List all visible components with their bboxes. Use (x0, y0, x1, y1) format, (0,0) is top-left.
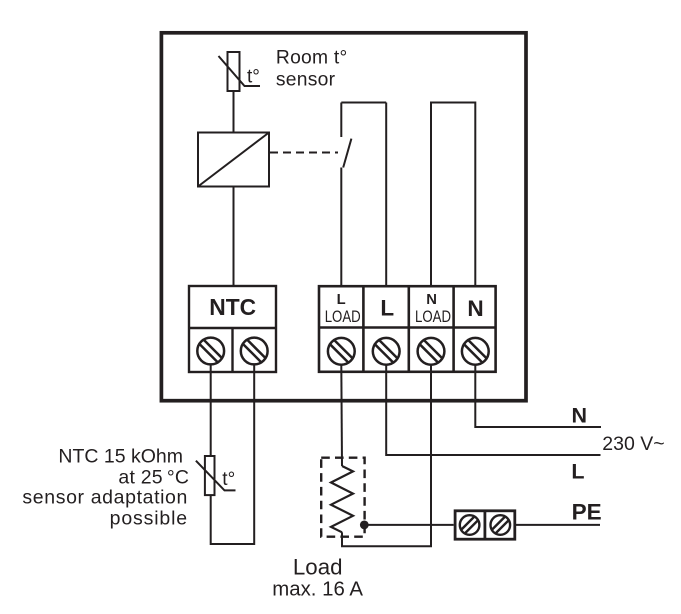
wire N loop (431, 103, 475, 287)
screw terminal N (462, 338, 489, 365)
svg-text:L: L (337, 292, 346, 308)
dashed control line (270, 152, 338, 154)
svg-text:at 25 °C: at 25 °C (118, 467, 189, 489)
junction dot PE to load chassis (360, 521, 369, 530)
svg-text:t°: t° (247, 67, 260, 88)
thermistor RT2 (external NTC) body (205, 456, 215, 495)
screw terminal PE-1 (460, 515, 480, 535)
thermistor RT2 diagonal stroke (196, 461, 236, 491)
svg-text:LOAD: LOAD (415, 307, 451, 326)
svg-text:Room t°: Room t° (276, 47, 348, 68)
wire top bar L loop (341, 102, 386, 104)
svg-text:Load: Load (293, 554, 343, 579)
svg-text:possible: possible (110, 508, 188, 530)
thermistor RT1 diagonal stroke (219, 56, 261, 86)
wire comparator to NTC terminal (233, 187, 235, 287)
wire NTC-1 to external thermistor (210, 364, 212, 456)
svg-text:230 V~: 230 V~ (602, 433, 664, 455)
terminal block PE (455, 511, 515, 539)
resistor R-load zigzag (331, 466, 353, 532)
svg-text:N: N (467, 296, 483, 321)
wire PE to supply (516, 524, 600, 526)
screw terminal L-LOAD (328, 338, 355, 365)
wire L-LOAD terminal to load (340, 365, 343, 466)
wire PE from load chassis (364, 524, 453, 526)
label NTC 15 kOhm note (22, 446, 189, 530)
svg-text:NTC 15 kOhm: NTC 15 kOhm (58, 446, 183, 468)
op-amp U1 diagonal (198, 133, 269, 187)
screw terminal PE-2 (491, 515, 511, 535)
screw terminal NTC-2 (241, 338, 268, 365)
svg-text:L: L (380, 296, 394, 321)
svg-text:PE: PE (572, 500, 602, 525)
op-amp U1 (control unit box) (198, 133, 269, 187)
svg-text:NTC: NTC (209, 294, 256, 320)
screw terminal N-LOAD (418, 338, 445, 365)
svg-text:sensor adaptation: sensor adaptation (22, 487, 188, 509)
screw terminal L (373, 338, 400, 365)
svg-text:t°: t° (222, 469, 235, 490)
load enclosure (dashed) (321, 458, 364, 537)
svg-text:LOAD: LOAD (325, 307, 361, 326)
svg-text:L: L (571, 459, 584, 483)
relay switch S1 (341, 103, 351, 287)
terminal block main (L LOAD / L / N LOAD / N) (319, 286, 496, 372)
wire N terminal to supply N (475, 365, 601, 427)
svg-text:sensor: sensor (276, 70, 336, 91)
wire thermistor loop bottom (211, 364, 255, 544)
svg-text:N: N (572, 403, 588, 427)
wire L terminal to supply L (386, 365, 600, 455)
device enclosure box (161, 33, 526, 401)
wire load bottom to N-LOAD terminal (342, 365, 431, 547)
svg-text:max. 16 A: max. 16 A (272, 578, 363, 600)
terminal block NTC (189, 286, 276, 372)
screw terminal NTC-1 (197, 338, 224, 365)
wire sensor to comparator (233, 91, 235, 133)
svg-text:N: N (426, 292, 437, 308)
wire L leg (385, 103, 387, 287)
thermistor RT1 (room sensor) body (228, 52, 240, 91)
